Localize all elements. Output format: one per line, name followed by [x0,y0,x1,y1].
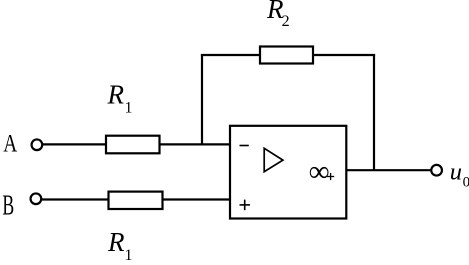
op-amp inverting input marker (-) [240,145,249,147]
resistor R1 (inverting input branch) [106,136,160,154]
op-amp non-inverting input marker (+) [240,200,251,211]
node A [3,130,17,157]
wire: R2 right to output node [313,54,375,56]
svg-text:1: 1 [125,99,133,116]
svg-text:2: 2 [282,13,290,30]
svg-text:1: 1 [125,247,133,264]
wire: output node vertical [373,54,375,171]
input terminal B [31,193,42,204]
label u0 [450,158,469,190]
op-amp polarity subscript (+) [327,173,334,180]
node B [2,191,14,222]
resistor R1 (non-inverting input branch) [109,192,163,209]
wire: R1 to op-amp non-inverting input [163,198,231,200]
svg-text:u: u [450,158,462,185]
svg-text:0: 0 [463,175,469,191]
label R2 [266,0,290,30]
wire: terminal B to R1 [42,198,109,200]
svg-text:B: B [2,191,14,222]
op-amp U1 body [230,126,346,219]
label R1 (top) [107,80,133,117]
svg-text:∞: ∞ [309,156,330,188]
label R1 (bottom) [107,227,133,264]
wire: op-amp output to terminal u0 [346,169,431,171]
op-amp ideal gain symbol (infinity) [309,156,330,188]
op-amp gain triangle [264,148,283,171]
resistor R2 (feedback) [260,47,313,64]
wire: terminal A to R1 [43,143,106,145]
wire: node to R2 left [201,54,260,56]
input terminal A [32,139,43,150]
svg-text:R: R [107,227,125,257]
output terminal u0 [431,165,442,176]
svg-text:A: A [3,130,17,157]
junction: inverting node to feedback R2 (vertical wire) [201,54,203,146]
wire: R1 to op-amp inverting input [160,143,231,145]
svg-text:R: R [107,80,125,110]
